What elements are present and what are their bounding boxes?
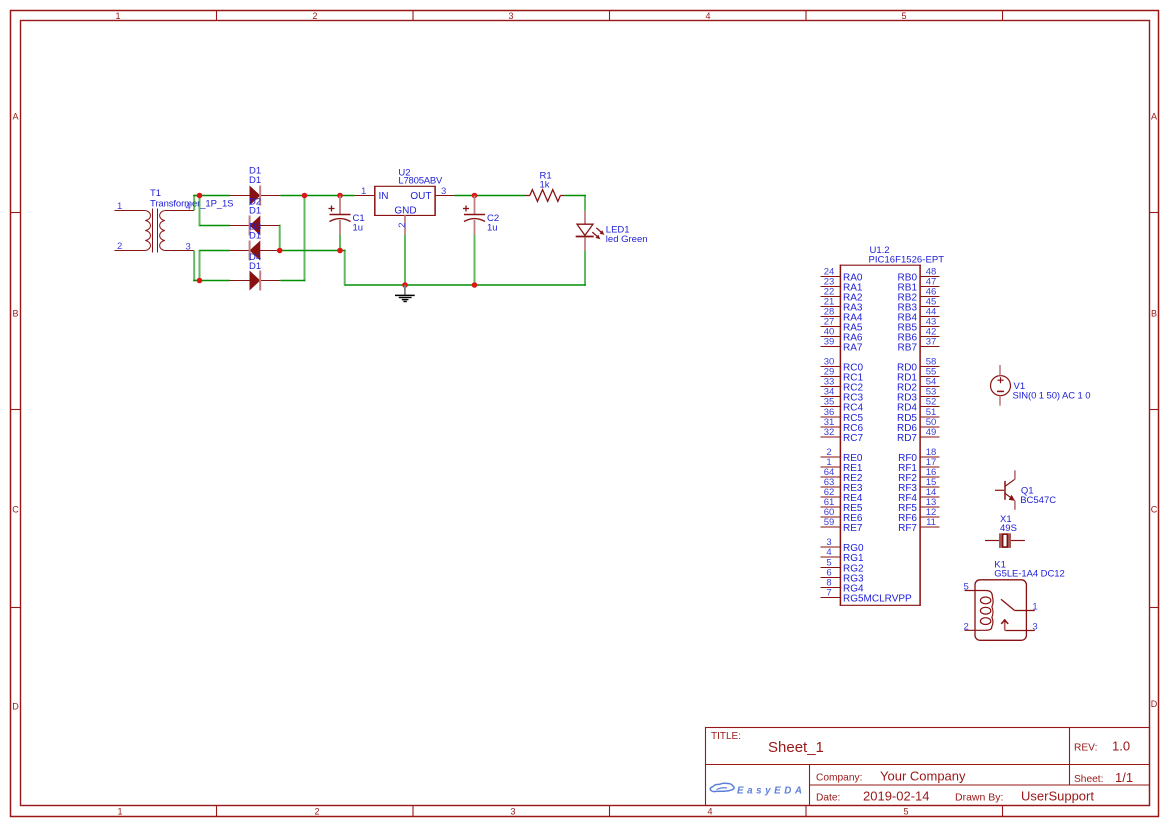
svg-text:EasyEDA: EasyEDA bbox=[737, 786, 805, 797]
svg-text:49: 49 bbox=[926, 427, 937, 438]
pin 23 RA1 bbox=[821, 277, 863, 294]
pin 34 RC3 bbox=[821, 387, 864, 404]
pin 32 RC7 bbox=[821, 427, 864, 444]
svg-text:PIC16F1526-EPT: PIC16F1526-EPT bbox=[869, 254, 945, 265]
wire: node down to D2 anode row bbox=[199, 195, 201, 227]
U2 pin numbers 1 3 2 bbox=[361, 186, 446, 228]
wire: node to D4 anode bbox=[200, 280, 230, 282]
capacitor C1 bbox=[329, 196, 351, 235]
svg-text:5: 5 bbox=[903, 807, 908, 817]
pin 36 RC5 bbox=[821, 407, 864, 424]
svg-text:C: C bbox=[1151, 505, 1158, 515]
svg-text:RE7: RE7 bbox=[843, 523, 863, 534]
pin 53 RD3 bbox=[897, 387, 940, 404]
pin 55 RD1 bbox=[897, 367, 940, 384]
pin 1 RE1 bbox=[821, 457, 863, 474]
K1 pin numbers 5 2 1 3 bbox=[964, 582, 1038, 633]
IC U1.2 PIC16F1526-EPT bbox=[840, 265, 921, 606]
svg-text:7: 7 bbox=[826, 588, 831, 599]
pin 11 RF7 bbox=[898, 517, 939, 534]
transistor Q1 BC547C bbox=[995, 470, 1015, 510]
pin 16 RF2 bbox=[898, 467, 939, 484]
pin 28 RA4 bbox=[821, 307, 863, 324]
K1 labels bbox=[994, 560, 1065, 580]
svg-text:TITLE:: TITLE: bbox=[711, 731, 741, 742]
D1 labels bbox=[249, 166, 261, 187]
pin 30 RC0 bbox=[821, 357, 864, 374]
svg-text:RB7: RB7 bbox=[898, 342, 918, 353]
pin 59 RE7 bbox=[821, 517, 863, 534]
svg-text:11: 11 bbox=[926, 517, 936, 528]
svg-text:1: 1 bbox=[361, 186, 366, 197]
wire: C1 lower pin to D3 node bbox=[339, 235, 341, 251]
relay K1 G5LE-1A4 DC12 bbox=[965, 580, 1035, 641]
EasyEDA logo bbox=[710, 783, 804, 796]
svg-text:SIN(0 1 50) AC 1 0: SIN(0 1 50) AC 1 0 bbox=[1013, 391, 1091, 402]
D2 labels bbox=[249, 197, 261, 217]
pin 5 RG2 bbox=[821, 558, 865, 575]
svg-text:RA7: RA7 bbox=[843, 342, 863, 353]
pin 15 RF3 bbox=[898, 477, 939, 494]
Q1 labels bbox=[1020, 485, 1056, 506]
R1 labels bbox=[540, 170, 552, 190]
svg-text:RF7: RF7 bbox=[898, 523, 917, 534]
svg-text:3: 3 bbox=[441, 186, 446, 197]
op-amp/regulator U2 L7805ABV bbox=[355, 186, 455, 234]
svg-text:RD7: RD7 bbox=[897, 433, 917, 444]
pin 21 RA3 bbox=[821, 297, 863, 314]
pin 47 RB1 bbox=[898, 277, 940, 294]
voltage source V1 bbox=[991, 365, 1011, 406]
svg-text:RG5MCLRVPP: RG5MCLRVPP bbox=[843, 593, 912, 604]
svg-text:35: 35 bbox=[824, 397, 835, 408]
junction dots bbox=[197, 193, 478, 288]
U1.2 designator/value labels bbox=[869, 245, 945, 265]
pin 64 RE2 bbox=[821, 467, 863, 484]
pin 18 RF0 bbox=[898, 447, 939, 464]
wire: U2 pin2 down to ground rail bbox=[404, 235, 406, 286]
diode D1 bbox=[230, 186, 281, 206]
svg-text:1k: 1k bbox=[540, 179, 550, 190]
wire: D3 node to C1 bottom bbox=[280, 250, 346, 252]
pin 62 RE4 bbox=[821, 487, 863, 504]
T1 pin numbers 1 2 4 3 bbox=[117, 201, 191, 253]
svg-text:49S: 49S bbox=[1000, 523, 1017, 534]
pin 17 RF1 bbox=[898, 457, 939, 474]
svg-text:RG1: RG1 bbox=[843, 553, 864, 564]
pin 50 RD6 bbox=[897, 417, 940, 434]
wire: U2 out to C2 and R1 bbox=[455, 195, 526, 197]
pin 60 RE6 bbox=[821, 507, 863, 524]
pin 37 RB7 bbox=[898, 337, 940, 354]
svg-text:52: 52 bbox=[926, 397, 937, 408]
svg-text:1: 1 bbox=[117, 807, 122, 817]
pin 8 RG4 bbox=[821, 578, 865, 595]
svg-text:D: D bbox=[1151, 699, 1158, 709]
resistor R1 bbox=[526, 190, 565, 202]
svg-text:led Green: led Green bbox=[606, 234, 648, 245]
wire: D1 cathode to +V rail bbox=[280, 195, 355, 197]
svg-text:5: 5 bbox=[901, 11, 906, 21]
pin 52 RD4 bbox=[897, 397, 940, 414]
svg-text:D1: D1 bbox=[249, 261, 261, 272]
svg-text:BC547C: BC547C bbox=[1020, 495, 1056, 506]
svg-text:RD4: RD4 bbox=[897, 402, 917, 413]
pin 45 RB3 bbox=[898, 297, 940, 314]
svg-text:B: B bbox=[1151, 309, 1157, 319]
svg-text:3: 3 bbox=[508, 11, 513, 21]
svg-text:C: C bbox=[12, 505, 19, 515]
diode D2 bbox=[230, 216, 281, 236]
svg-text:REV:: REV: bbox=[1074, 743, 1097, 754]
svg-text:2: 2 bbox=[312, 11, 317, 21]
svg-text:1: 1 bbox=[1032, 602, 1037, 613]
svg-text:IN: IN bbox=[379, 191, 389, 202]
pin 13 RF5 bbox=[898, 497, 939, 514]
svg-text:39: 39 bbox=[824, 337, 835, 348]
pin 63 RE3 bbox=[821, 477, 863, 494]
svg-text:G5LE-1A4 DC12: G5LE-1A4 DC12 bbox=[994, 569, 1065, 580]
svg-text:32: 32 bbox=[824, 427, 835, 438]
svg-text:GND: GND bbox=[394, 206, 416, 217]
svg-text:3: 3 bbox=[186, 242, 191, 253]
pin 49 RD7 bbox=[897, 427, 940, 444]
svg-text:4: 4 bbox=[826, 547, 831, 558]
svg-text:1u: 1u bbox=[487, 222, 498, 233]
title block bbox=[706, 728, 1150, 806]
capacitor C2 bbox=[463, 196, 485, 235]
svg-text:3: 3 bbox=[1032, 622, 1037, 633]
diode D3 bbox=[230, 241, 281, 261]
ground bbox=[395, 285, 415, 302]
pin 14 RF4 bbox=[898, 487, 939, 504]
svg-text:Sheet_1: Sheet_1 bbox=[768, 739, 824, 756]
svg-text:37: 37 bbox=[926, 337, 937, 348]
wire: D2 cathode down to D3 output node bbox=[279, 225, 281, 252]
svg-text:4: 4 bbox=[705, 11, 710, 21]
svg-text:D1: D1 bbox=[249, 206, 261, 217]
V1 labels bbox=[1013, 381, 1091, 402]
svg-text:UserSupport: UserSupport bbox=[1021, 789, 1094, 804]
wire: riser D4 row up to +V rail bbox=[304, 195, 306, 282]
pin 22 RA2 bbox=[821, 287, 863, 304]
D4 labels bbox=[249, 252, 261, 272]
diode D4 bbox=[230, 271, 281, 291]
svg-text:RC7: RC7 bbox=[843, 433, 863, 444]
svg-text:1u: 1u bbox=[353, 222, 364, 233]
pin 43 RB5 bbox=[898, 317, 940, 334]
pin 4 RG1 bbox=[821, 547, 865, 564]
svg-text:L7805ABV: L7805ABV bbox=[398, 175, 443, 186]
wire: R1 right to LED anode bbox=[564, 195, 585, 197]
U2 designator/value labels bbox=[398, 167, 443, 186]
pin 24 RA0 bbox=[821, 267, 863, 284]
svg-text:2019-02-14: 2019-02-14 bbox=[863, 789, 930, 804]
svg-text:D1: D1 bbox=[249, 175, 261, 186]
svg-text:2: 2 bbox=[964, 622, 969, 633]
svg-text:1: 1 bbox=[115, 11, 120, 21]
pin 44 RB4 bbox=[898, 307, 940, 324]
wire: node up to D3 row bbox=[199, 250, 201, 282]
svg-text:A: A bbox=[1151, 112, 1157, 122]
pin 46 RB2 bbox=[898, 287, 940, 304]
pin 33 RC2 bbox=[821, 377, 864, 394]
wire: C2 lower pin to ground rail bbox=[474, 235, 476, 286]
pin 12 RF6 bbox=[898, 507, 939, 524]
C1 labels bbox=[353, 213, 365, 234]
LED1 labels bbox=[606, 225, 648, 245]
pin 39 RA7 bbox=[821, 337, 863, 354]
svg-text:A: A bbox=[12, 112, 18, 122]
X1 labels bbox=[1000, 514, 1017, 534]
transformer T1 bbox=[115, 209, 195, 253]
svg-text:Your Company: Your Company bbox=[880, 769, 966, 784]
svg-text:B: B bbox=[12, 309, 18, 319]
svg-text:1/1: 1/1 bbox=[1115, 770, 1133, 785]
pin 27 RA5 bbox=[821, 317, 863, 334]
pin 51 RD5 bbox=[897, 407, 940, 424]
pin 29 RC1 bbox=[821, 367, 864, 384]
svg-text:59: 59 bbox=[824, 517, 835, 528]
crystal X1 49S bbox=[985, 533, 1025, 548]
svg-text:Company:: Company: bbox=[816, 773, 862, 784]
pin 40 RA6 bbox=[821, 327, 863, 344]
svg-text:1.0: 1.0 bbox=[1112, 739, 1130, 754]
svg-text:Sheet:: Sheet: bbox=[1074, 774, 1103, 785]
svg-text:Drawn By:: Drawn By: bbox=[955, 792, 1003, 804]
pin 2 RE0 bbox=[821, 447, 863, 464]
svg-text:Transformer_1P_1S: Transformer_1P_1S bbox=[150, 199, 234, 210]
C2 labels bbox=[487, 213, 499, 234]
svg-text:T1: T1 bbox=[150, 188, 161, 199]
svg-text:2: 2 bbox=[397, 222, 408, 227]
pin 3 RG0 bbox=[821, 537, 865, 554]
svg-text:Date:: Date: bbox=[816, 793, 840, 804]
LED1 led Green bbox=[576, 211, 605, 251]
svg-text:2: 2 bbox=[117, 241, 122, 252]
svg-text:D1: D1 bbox=[249, 230, 261, 241]
wire: D4 cathode to riser bbox=[280, 280, 305, 282]
wire: C1 bottom jog down to ground rail bbox=[344, 250, 346, 286]
svg-text:4: 4 bbox=[186, 202, 191, 213]
svg-text:OUT: OUT bbox=[410, 191, 431, 202]
pin 31 RC6 bbox=[821, 417, 864, 434]
pin 7 RG5MCLRVPP bbox=[821, 588, 913, 605]
D3 labels bbox=[249, 221, 261, 241]
svg-text:D: D bbox=[12, 702, 19, 712]
svg-text:3: 3 bbox=[510, 807, 515, 817]
pin 42 RB6 bbox=[898, 327, 940, 344]
svg-text:5: 5 bbox=[964, 582, 969, 593]
svg-text:4: 4 bbox=[707, 807, 712, 817]
wire: T1 pin3 down to node bbox=[193, 251, 195, 282]
wire: ground rail to GND and C2 bbox=[345, 284, 586, 286]
pin 35 RC4 bbox=[821, 397, 864, 414]
T1 designator/value labels bbox=[150, 188, 234, 210]
pin 58 RD0 bbox=[897, 357, 940, 374]
pin 61 RE5 bbox=[821, 497, 863, 514]
pin 54 RD2 bbox=[897, 377, 940, 394]
svg-text:1: 1 bbox=[117, 201, 122, 212]
wire: node to D1 anode bbox=[200, 195, 230, 197]
svg-text:2: 2 bbox=[314, 807, 319, 817]
wire: LED cathode down to ground rail bbox=[584, 251, 586, 286]
pin 48 RB0 bbox=[898, 267, 940, 284]
pin 6 RG3 bbox=[821, 568, 865, 585]
wire: T1 pin4 up to +rail node bbox=[193, 195, 195, 211]
U2 port names IN OUT GND bbox=[379, 191, 432, 217]
svg-text:RC4: RC4 bbox=[843, 402, 863, 413]
